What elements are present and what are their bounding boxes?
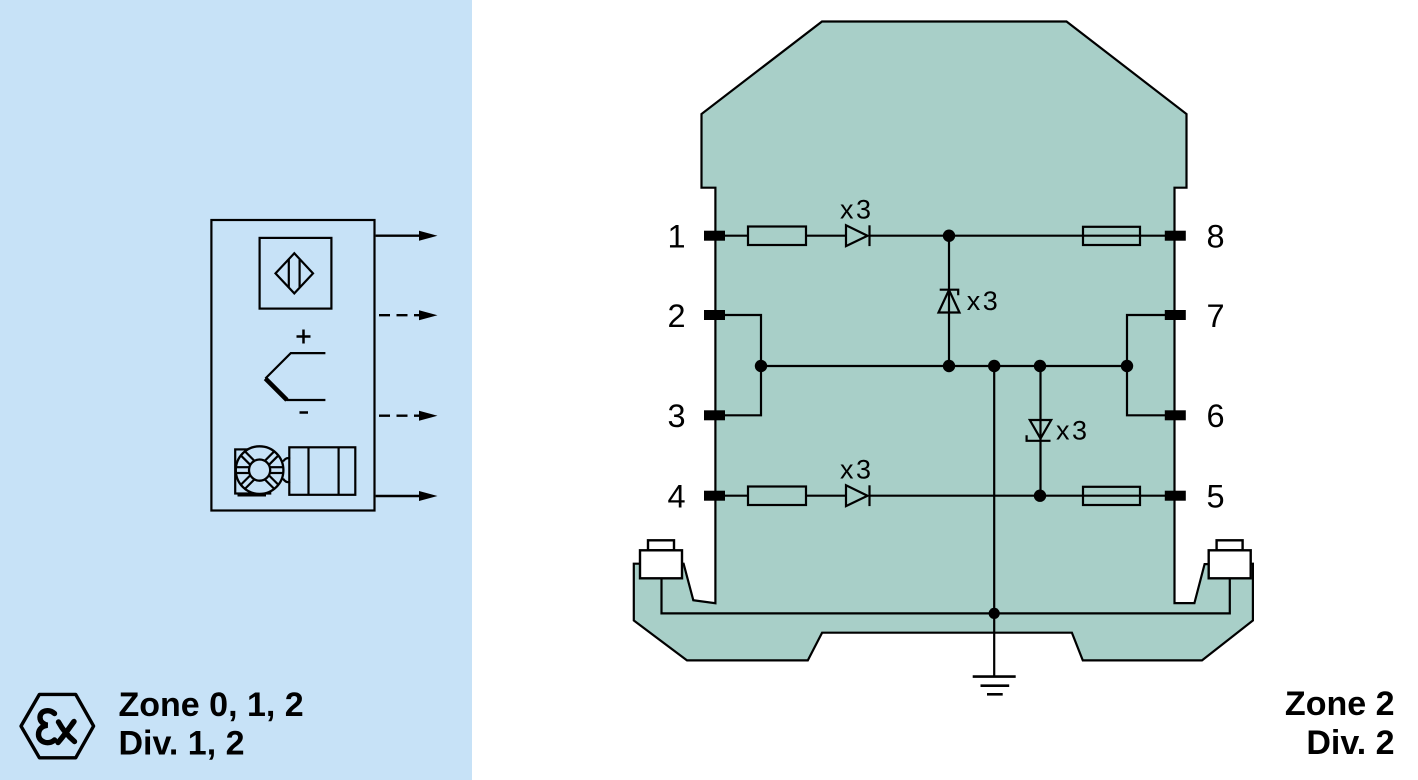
svg-text:5: 5 — [1206, 479, 1224, 515]
proximity sensor symbol box — [260, 238, 332, 309]
arrow signal 1 (solid) — [376, 234, 421, 236]
diode D2 (x3) — [846, 485, 868, 506]
wire: ground branch — [993, 366, 995, 677]
thermocouple symbol — [265, 353, 325, 378]
svg-text:x3: x3 — [1056, 415, 1090, 445]
node bus-zener2 — [1034, 360, 1046, 372]
svg-text:Div. 1, 2: Div. 1, 2 — [119, 725, 245, 763]
svg-text:8: 8 — [1206, 219, 1224, 255]
svg-text:3: 3 — [667, 398, 685, 434]
svg-text:Zone 2: Zone 2 — [1285, 685, 1395, 723]
DIN-rail clamp right — [1209, 540, 1251, 578]
field device box — [211, 220, 374, 511]
wire: row 4 (terminal 4 to terminal 5) — [725, 495, 748, 497]
ground — [973, 677, 1016, 695]
svg-text:x3: x3 — [840, 194, 874, 224]
terminal 2 — [704, 310, 725, 320]
DIN-rail clamp left — [640, 540, 682, 578]
hazardous-area background panel — [0, 0, 472, 780]
terminal 7 — [1165, 310, 1186, 320]
terminal 6 — [1165, 410, 1186, 420]
arrow signal 3 (dashed) — [379, 415, 421, 417]
thermocouple plus label — [297, 330, 311, 344]
wire: terminal 7 stub — [1127, 315, 1166, 366]
device housing body — [634, 22, 1253, 661]
Ex epsilon glyph — [39, 711, 55, 743]
terminal 8 — [1165, 231, 1186, 241]
node junction row1-Z1 — [943, 230, 955, 242]
svg-text:4: 4 — [667, 479, 685, 515]
wiper taps — [283, 458, 290, 461]
Ex hexagon logo — [21, 694, 94, 757]
svg-text:2: 2 — [667, 298, 685, 334]
potentiometer winding ring — [236, 446, 284, 494]
node bus-right — [1121, 360, 1133, 372]
wire: upper zener branch — [948, 236, 950, 366]
node bus-ground — [988, 360, 1000, 372]
svg-text:x3: x3 — [840, 454, 874, 484]
svg-text:Zone 0, 1, 2: Zone 0, 1, 2 — [119, 686, 304, 724]
terminal 3 — [704, 410, 725, 420]
svg-text:1: 1 — [667, 219, 685, 255]
wire: row 1 (terminal 1 to terminal 8) — [725, 235, 748, 237]
terminal 1 — [704, 231, 725, 241]
proximity sensor diamond — [276, 253, 314, 293]
svg-text:6: 6 — [1206, 398, 1224, 434]
node junction ground bus — [989, 608, 1000, 619]
wire: terminal 2 stub — [725, 315, 761, 366]
resistor R1 — [748, 227, 806, 246]
node junction row4-Z2 — [1034, 490, 1046, 502]
fuse F1 — [1083, 227, 1140, 245]
wire: terminal 6 stub — [1127, 366, 1166, 415]
ground bus wire (clamp to clamp) — [662, 578, 1230, 613]
zener diode Z1 (x3) — [939, 290, 960, 313]
wire: lower zener branch — [1039, 366, 1041, 496]
terminal 4 — [704, 491, 725, 501]
middle bus wire — [761, 365, 1127, 367]
svg-text:Div. 2: Div. 2 — [1306, 724, 1394, 762]
thermocouple minus label — [300, 411, 309, 414]
resistor R2 — [748, 487, 806, 506]
node bus-left — [755, 360, 767, 372]
terminal 5 — [1165, 491, 1186, 501]
potentiometer body box — [235, 449, 270, 493]
zener diode Z2 (x3) — [1027, 420, 1052, 441]
wire: terminal 3 stub — [725, 366, 761, 415]
resistance element box — [289, 447, 355, 495]
Ex x glyph — [59, 722, 75, 742]
diode D1 (x3) — [846, 225, 868, 246]
arrow signal 2 (dashed) — [379, 314, 421, 316]
svg-text:7: 7 — [1206, 298, 1224, 334]
arrow signal 4 (solid) — [376, 495, 421, 497]
fuse F2 — [1083, 487, 1140, 505]
svg-text:x3: x3 — [967, 286, 1001, 316]
node bus-zener1 — [943, 360, 955, 372]
